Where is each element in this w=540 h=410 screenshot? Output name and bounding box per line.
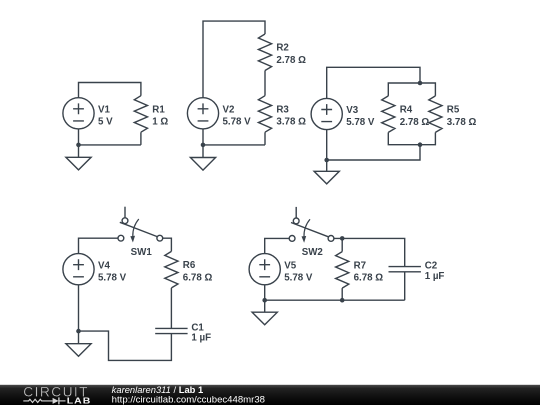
wire V2 bottom to R3 bottom <box>203 129 265 145</box>
voltage source V5 <box>249 254 280 285</box>
wire V5 bottom <box>264 285 266 300</box>
svg-text:SW2: SW2 <box>302 247 324 258</box>
node junction <box>340 236 345 241</box>
svg-text:5.78 V: 5.78 V <box>98 272 127 283</box>
svg-text:R5: R5 <box>447 105 460 116</box>
voltage source V3 <box>311 98 342 129</box>
CircuitLab logo resistor-diode symbol <box>23 399 52 402</box>
wire bottom bus <box>265 299 405 301</box>
wire V4 bottom <box>78 285 80 331</box>
ground GND5 <box>252 312 277 325</box>
capacitor C2 <box>389 267 421 272</box>
svg-text:5.78 V: 5.78 V <box>284 272 313 283</box>
svg-text:SW1: SW1 <box>131 247 153 258</box>
svg-text:LAB: LAB <box>67 395 92 405</box>
wire to ground 1 <box>78 145 80 157</box>
svg-text:2.78 Ω: 2.78 Ω <box>276 55 306 66</box>
wire V1 top to R1 <box>79 83 141 98</box>
wire V5 top to SW2 <box>265 238 290 253</box>
switch SW2 <box>289 207 334 243</box>
svg-text:R1: R1 <box>152 104 165 115</box>
resistor R5 <box>429 96 442 132</box>
svg-text:5.78 V: 5.78 V <box>223 117 252 128</box>
svg-text:1 µF: 1 µF <box>191 333 211 344</box>
svg-text:V4: V4 <box>98 260 111 271</box>
wire V2 top to R2 <box>203 21 265 98</box>
node junction <box>76 329 81 334</box>
svg-text:6.78 Ω: 6.78 Ω <box>354 273 384 284</box>
node junction <box>76 143 81 148</box>
wire to ground 3 <box>326 160 328 171</box>
svg-text:6.78 Ω: 6.78 Ω <box>183 272 213 283</box>
svg-text:2.78 Ω: 2.78 Ω <box>400 117 430 128</box>
resistor R6 <box>165 251 178 288</box>
wire to ground 4 <box>78 331 80 344</box>
resistor R3 <box>258 96 271 132</box>
wire SW2 to C2 top <box>334 238 405 266</box>
svg-text:V3: V3 <box>346 105 359 116</box>
svg-text:V5: V5 <box>284 260 297 271</box>
svg-text:http://circuitlab.com/ccubec44: http://circuitlab.com/ccubec448mr38 <box>112 394 265 404</box>
wire V1 bottom to R1 bottom <box>79 129 141 145</box>
voltage source V2 <box>187 98 218 129</box>
wire V4 top to SW1 <box>79 238 119 253</box>
svg-text:5 V: 5 V <box>98 117 113 128</box>
svg-text:R4: R4 <box>400 105 413 116</box>
wire C1 bottom loop <box>79 331 172 360</box>
wire to ground 5 <box>264 300 266 312</box>
node junction <box>418 81 423 86</box>
svg-text:5.78 V: 5.78 V <box>346 117 375 128</box>
wire SW1 to R6 <box>163 238 172 251</box>
wire R6 to C1 <box>170 288 172 329</box>
svg-text:3.78 Ω: 3.78 Ω <box>276 117 306 128</box>
ground GND4 <box>66 344 91 357</box>
node junction <box>324 158 329 163</box>
wire parallel top bracket <box>388 83 435 96</box>
wire bottom loop to V3 <box>327 130 420 160</box>
capacitor C1 <box>155 328 187 333</box>
node junction <box>418 142 423 147</box>
wire R2 to R3 <box>264 71 266 96</box>
wire to R7 top <box>341 238 343 251</box>
node junction <box>201 143 206 148</box>
svg-text:R3: R3 <box>276 104 289 115</box>
ground GND2 <box>190 158 215 171</box>
resistor R4 <box>382 96 395 132</box>
wire C2 bottom <box>404 272 406 300</box>
wire V3 top <box>327 67 420 98</box>
svg-text:1 µF: 1 µF <box>425 271 445 282</box>
node junction <box>340 298 345 303</box>
voltage source V4 <box>63 254 94 285</box>
switch SW1 <box>118 207 163 243</box>
ground GND3 <box>314 171 339 184</box>
wire to ground 2 <box>202 145 204 158</box>
svg-text:R2: R2 <box>276 43 289 54</box>
svg-text:V2: V2 <box>223 104 236 115</box>
svg-text:3.78 Ω: 3.78 Ω <box>447 117 477 128</box>
ground GND1 <box>66 157 91 170</box>
svg-text:R7: R7 <box>354 260 366 271</box>
node junction <box>262 298 267 303</box>
svg-text:V1: V1 <box>98 104 111 115</box>
resistor R7 <box>336 252 349 289</box>
voltage source V1 <box>63 98 94 129</box>
wire parallel bottom bracket <box>388 132 435 144</box>
svg-text:R6: R6 <box>183 260 196 271</box>
wire R7 bottom <box>341 288 343 300</box>
resistor R1 <box>134 96 147 132</box>
resistor R2 <box>258 34 271 71</box>
svg-text:1 Ω: 1 Ω <box>152 117 168 128</box>
